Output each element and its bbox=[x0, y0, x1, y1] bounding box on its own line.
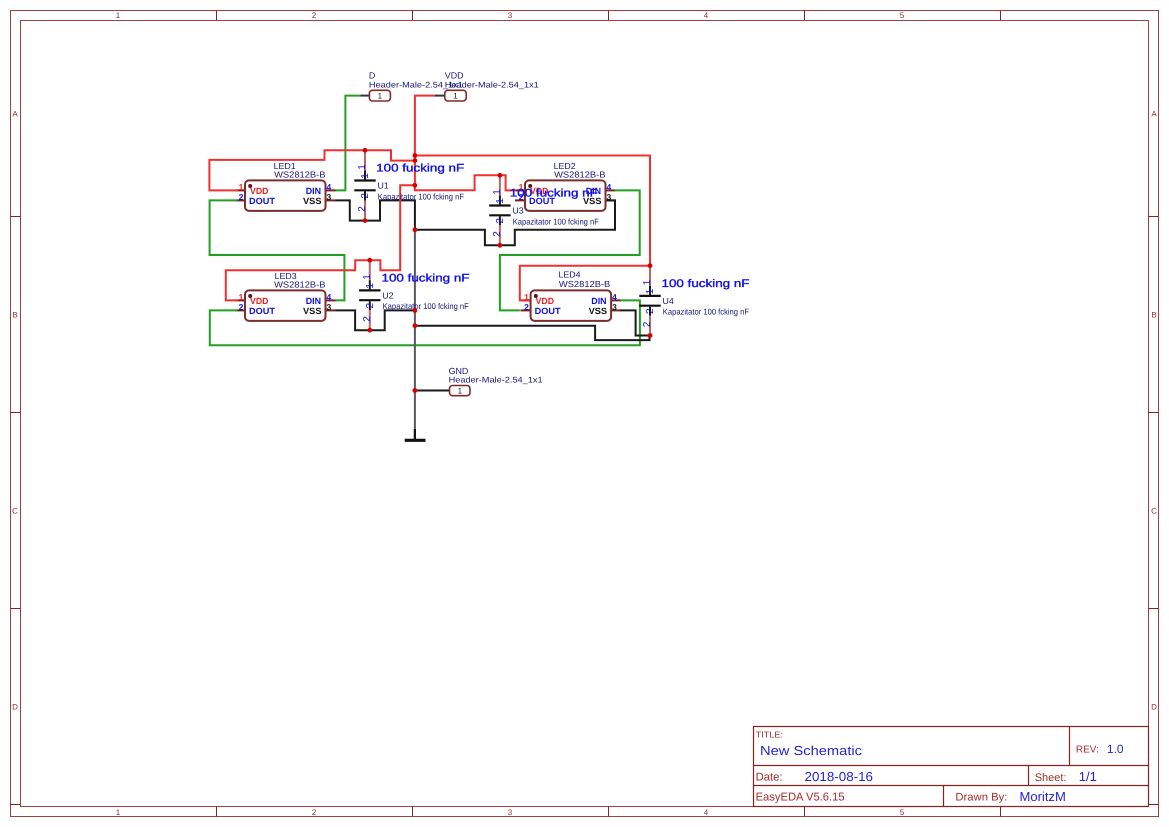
svg-text:1: 1 bbox=[360, 173, 371, 179]
svg-text:VDD: VDD bbox=[250, 296, 269, 306]
svg-text:2: 2 bbox=[312, 808, 317, 817]
row tick right D end bbox=[1149, 804, 1159, 806]
VALUE LABELS 100 fucking nF bbox=[376, 163, 750, 290]
junction U2 bottom bbox=[367, 328, 372, 333]
wire U4 to LED4 VDD loop bbox=[520, 266, 650, 301]
svg-text:D: D bbox=[12, 703, 18, 712]
svg-text:2: 2 bbox=[492, 231, 503, 237]
LED2 pin 4 stub bbox=[606, 189, 616, 191]
svg-text:1: 1 bbox=[524, 292, 529, 302]
column tick top 3 bbox=[608, 11, 610, 21]
svg-text:VSS: VSS bbox=[303, 196, 322, 206]
svg-text:DIN: DIN bbox=[591, 296, 606, 306]
svg-text:DOUT: DOUT bbox=[249, 306, 276, 316]
svg-text:100 fucking nF: 100 fucking nF bbox=[662, 278, 750, 290]
svg-text:4: 4 bbox=[607, 182, 612, 192]
svg-text:DOUT: DOUT bbox=[535, 306, 562, 316]
svg-text:WS2812B-B: WS2812B-B bbox=[274, 279, 326, 289]
title block sheet divider bbox=[1028, 766, 1030, 786]
wire U1 to LED1 VDD loop bbox=[209, 150, 365, 190]
wire top VDD run to U4 bbox=[415, 156, 650, 266]
wire LED3 VSS to trunk bbox=[336, 310, 415, 330]
column tick bottom 3 bbox=[608, 807, 610, 817]
svg-text:Kapazitator 100 fcking nF: Kapazitator 100 fcking nF bbox=[378, 191, 464, 201]
svg-text:VSS: VSS bbox=[589, 306, 608, 316]
LED2 pin 1 stub bbox=[515, 189, 525, 191]
svg-text:U1: U1 bbox=[378, 181, 389, 191]
svg-text:1: 1 bbox=[453, 92, 458, 101]
svg-text:MoritzM: MoritzM bbox=[1020, 789, 1066, 804]
svg-text:2: 2 bbox=[495, 218, 506, 224]
junction GND bus lower bbox=[413, 323, 418, 328]
title block row line 2 bbox=[754, 785, 1149, 787]
svg-text:Header-Male-2.54_1x1: Header-Male-2.54_1x1 bbox=[445, 81, 539, 90]
svg-text:VDD: VDD bbox=[445, 71, 464, 81]
row tick left C/D bbox=[11, 608, 21, 610]
LED4 WS2812B-B bbox=[524, 269, 617, 321]
svg-text:TITLE:: TITLE: bbox=[756, 730, 784, 740]
capacitor U4 bbox=[639, 266, 749, 336]
junction U3 bottom bbox=[498, 243, 503, 248]
wire net LED1 DOUT to LED3 DIN bbox=[210, 200, 345, 300]
title block rev divider bbox=[1069, 727, 1071, 766]
PIN STUBS bbox=[236, 190, 622, 310]
LED3 pin 3 stub bbox=[326, 309, 336, 311]
wire GND trunk to GND header bbox=[415, 390, 450, 392]
svg-text:5: 5 bbox=[900, 808, 905, 817]
svg-text:3: 3 bbox=[327, 192, 332, 202]
column tick top 1 bbox=[216, 11, 218, 21]
svg-text:1: 1 bbox=[357, 164, 368, 170]
junction U4 bottom bbox=[648, 333, 653, 338]
row tick right A/B bbox=[1149, 216, 1159, 218]
svg-text:C: C bbox=[12, 507, 18, 516]
row tick left D end bbox=[11, 804, 21, 806]
junction GND header bbox=[413, 388, 418, 393]
svg-text:3: 3 bbox=[508, 808, 513, 817]
wire net LED4 DOUT to LED2 DIN bbox=[500, 190, 640, 310]
wire hub to U2 to LED3 VDD bbox=[226, 185, 415, 300]
svg-text:1/1: 1/1 bbox=[1079, 769, 1097, 784]
capacitor U2 bbox=[359, 260, 469, 330]
JUNCTION DOTS bbox=[363, 148, 653, 393]
column tick bottom 5 bbox=[1000, 807, 1002, 817]
LED3 pin 1 stub bbox=[236, 299, 246, 301]
junction U2 top bbox=[367, 258, 372, 263]
svg-text:Kapazitator 100 fcking nF: Kapazitator 100 fcking nF bbox=[383, 301, 469, 311]
WIRES RED VDD bbox=[209, 96, 650, 301]
svg-text:VSS: VSS bbox=[303, 306, 322, 316]
junction U4 top bbox=[648, 263, 653, 268]
TITLE BLOCK bbox=[754, 727, 1149, 807]
svg-text:3: 3 bbox=[607, 192, 612, 202]
svg-text:1: 1 bbox=[642, 279, 653, 285]
capacitor U3 bbox=[489, 175, 599, 245]
svg-text:VDD: VDD bbox=[250, 186, 269, 196]
svg-text:1: 1 bbox=[458, 387, 463, 396]
svg-text:REV:: REV: bbox=[1076, 744, 1099, 755]
junction U1 top bbox=[363, 148, 368, 153]
svg-text:1: 1 bbox=[495, 198, 506, 204]
svg-text:2018-08-16: 2018-08-16 bbox=[805, 769, 874, 784]
svg-text:4: 4 bbox=[704, 808, 709, 817]
row tick left A/B bbox=[11, 216, 21, 218]
svg-text:LED4: LED4 bbox=[559, 269, 581, 279]
wire upper GND bus to LED2 VSS bbox=[415, 200, 615, 245]
header D Header-Male-2.54_1x1 bbox=[360, 71, 463, 101]
column tick bottom 1 bbox=[216, 807, 218, 817]
svg-text:2: 2 bbox=[357, 206, 368, 212]
junction GND bus mid bbox=[413, 308, 418, 313]
column tick top 4 bbox=[804, 11, 806, 21]
LED4 pin 3 stub bbox=[611, 309, 621, 311]
wire LED1 VSS to trunk bbox=[336, 200, 415, 230]
svg-text:U3: U3 bbox=[512, 206, 523, 216]
svg-text:B: B bbox=[1151, 311, 1156, 320]
svg-text:1: 1 bbox=[645, 288, 656, 294]
svg-text:1: 1 bbox=[492, 189, 503, 195]
svg-text:1: 1 bbox=[239, 292, 244, 302]
svg-text:D: D bbox=[369, 71, 375, 81]
svg-text:Header-Male-2.54_1x1: Header-Male-2.54_1x1 bbox=[449, 375, 543, 384]
junction hub 2 bbox=[413, 158, 418, 163]
svg-text:1: 1 bbox=[362, 274, 373, 280]
svg-text:DIN: DIN bbox=[306, 186, 321, 196]
svg-text:3: 3 bbox=[612, 302, 617, 312]
svg-text:U4: U4 bbox=[663, 296, 674, 306]
svg-text:2: 2 bbox=[239, 192, 244, 202]
row tick left B/C bbox=[11, 412, 21, 414]
LED2 pin 3 stub bbox=[606, 199, 616, 201]
header VDD Header-Male-2.54_1x1 bbox=[435, 71, 540, 101]
svg-text:4: 4 bbox=[327, 292, 332, 302]
svg-text:DIN: DIN bbox=[306, 296, 321, 306]
svg-text:New Schematic: New Schematic bbox=[760, 743, 863, 758]
svg-text:1: 1 bbox=[378, 92, 383, 101]
svg-text:GND: GND bbox=[449, 366, 469, 376]
svg-text:2: 2 bbox=[239, 302, 244, 312]
row tick right C/D bbox=[1149, 608, 1159, 610]
LED3 WS2812B-B bbox=[239, 271, 332, 321]
LED2 pin 2 stub bbox=[515, 199, 525, 201]
wire GND vertical trunk bbox=[414, 228, 416, 439]
svg-text:C: C bbox=[1151, 507, 1157, 516]
row tick right B/C bbox=[1149, 412, 1159, 414]
title block drawnby divider bbox=[943, 786, 945, 807]
svg-text:1: 1 bbox=[239, 182, 244, 192]
column tick bottom 4 bbox=[804, 807, 806, 817]
LED4 pin 4 stub bbox=[611, 299, 621, 301]
ground symbol bbox=[405, 429, 426, 440]
svg-text:Sheet:: Sheet: bbox=[1035, 772, 1067, 784]
wire lower GND bus to U4 bbox=[415, 326, 650, 340]
LED4 pin 2 stub bbox=[521, 309, 531, 311]
svg-text:5: 5 bbox=[900, 11, 905, 20]
svg-text:A: A bbox=[12, 110, 18, 119]
capacitor U1 bbox=[354, 150, 464, 220]
junction U3 top bbox=[498, 173, 503, 178]
wire LED4 VSS to U4 bbox=[620, 310, 650, 335]
svg-text:Drawn By:: Drawn By: bbox=[955, 792, 1007, 804]
svg-text:D: D bbox=[1151, 703, 1157, 712]
column tick top 5 bbox=[1000, 11, 1002, 21]
header GND Header-Male-2.54_1x1 bbox=[449, 366, 543, 396]
LED2 WS2812B-B bbox=[519, 161, 612, 211]
svg-text:100 fucking nF: 100 fucking nF bbox=[510, 187, 598, 199]
svg-text:EasyEDA V5.6.15: EasyEDA V5.6.15 bbox=[756, 792, 845, 804]
svg-text:2: 2 bbox=[645, 308, 656, 314]
column tick bottom 2 bbox=[412, 807, 414, 817]
column tick top 2 bbox=[412, 11, 414, 21]
svg-text:Kapazitator 100 fcking nF: Kapazitator 100 fcking nF bbox=[663, 307, 749, 317]
svg-text:1: 1 bbox=[116, 808, 121, 817]
svg-text:2: 2 bbox=[312, 11, 317, 20]
svg-text:2: 2 bbox=[365, 303, 376, 309]
LED1 pin 1 stub bbox=[236, 189, 246, 191]
svg-text:WS2812B-B: WS2812B-B bbox=[274, 169, 326, 179]
svg-text:2: 2 bbox=[360, 193, 371, 199]
svg-text:3: 3 bbox=[508, 11, 513, 20]
wire net D header to LED1 DIN bbox=[336, 96, 361, 191]
svg-text:U2: U2 bbox=[382, 291, 393, 301]
LED3 pin 4 stub bbox=[326, 299, 336, 301]
LED1 pin 4 stub bbox=[326, 189, 336, 191]
svg-text:Kapazitator 100 fcking nF: Kapazitator 100 fcking nF bbox=[513, 216, 599, 226]
svg-text:4: 4 bbox=[327, 182, 332, 192]
svg-text:4: 4 bbox=[704, 11, 709, 20]
LED4 pin 1 stub bbox=[521, 299, 531, 301]
HEADERS bbox=[360, 71, 543, 396]
title block row line 1 bbox=[754, 765, 1149, 767]
LED1 pin 3 stub bbox=[326, 199, 336, 201]
CAPACITORS bbox=[354, 150, 749, 335]
svg-text:100 fucking nF: 100 fucking nF bbox=[382, 272, 470, 284]
title block outline bbox=[754, 727, 1149, 807]
svg-text:100 fucking nF: 100 fucking nF bbox=[376, 163, 464, 175]
svg-text:3: 3 bbox=[327, 302, 332, 312]
svg-text:1.0: 1.0 bbox=[1107, 742, 1124, 756]
wire U1 to hub link bbox=[365, 150, 415, 160]
LED3 pin 2 stub bbox=[236, 309, 246, 311]
svg-text:A: A bbox=[1151, 110, 1157, 119]
junction GND bus upper bbox=[413, 227, 418, 232]
wire net LED3 DOUT to LED4 DIN bbox=[210, 300, 640, 345]
svg-text:WS2812B-B: WS2812B-B bbox=[554, 169, 606, 179]
svg-text:2: 2 bbox=[362, 316, 373, 322]
svg-text:2: 2 bbox=[642, 321, 653, 327]
wire VDD header to hub to LED2 VDD bbox=[415, 96, 516, 191]
WIRES GREEN bbox=[210, 96, 640, 346]
svg-text:1: 1 bbox=[116, 11, 121, 20]
LED1 WS2812B-B bbox=[239, 161, 332, 211]
svg-text:VDD: VDD bbox=[536, 296, 555, 306]
svg-text:4: 4 bbox=[612, 292, 617, 302]
svg-text:2: 2 bbox=[524, 302, 529, 312]
LED COMPONENTS bbox=[239, 161, 618, 321]
svg-text:1: 1 bbox=[365, 283, 376, 289]
svg-text:WS2812B-B: WS2812B-B bbox=[559, 279, 611, 289]
LED1 pin 2 stub bbox=[236, 199, 246, 201]
svg-text:Date:: Date: bbox=[756, 771, 783, 783]
svg-text:B: B bbox=[12, 311, 17, 320]
junction hub 3 bbox=[413, 183, 418, 188]
svg-text:DOUT: DOUT bbox=[249, 196, 276, 206]
junction hub 1 bbox=[413, 153, 418, 158]
junction U1 bottom bbox=[363, 218, 368, 223]
